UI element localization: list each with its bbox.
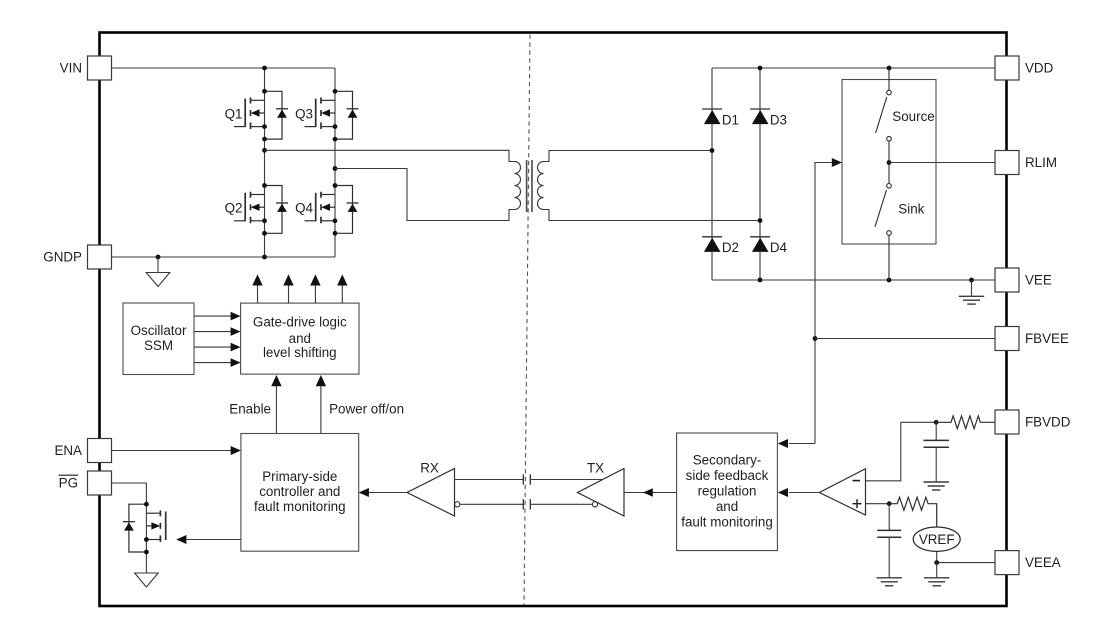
svg-text:D2: D2	[722, 240, 739, 255]
wire ENA to primary controller	[112, 450, 232, 452]
wire Power off/on (primary to gate-drive)	[320, 386, 322, 434]
node PG drain	[144, 502, 149, 507]
transistor Q2	[234, 186, 288, 234]
node D4 bottom on VEE rail	[758, 278, 763, 283]
node VEE ground tap	[969, 278, 974, 283]
gate drive output arrow 1	[257, 285, 259, 303]
svg-text:VREF: VREF	[919, 532, 955, 547]
wire oscillator output 4	[194, 362, 231, 364]
op-amp minus sign	[853, 480, 861, 482]
wire comm channel bottom (RX side)	[460, 503, 523, 505]
svg-text:fault monitoring: fault monitoring	[254, 499, 346, 514]
ground GNDP (open triangle)	[146, 257, 170, 287]
node FBVDD divider	[934, 420, 939, 425]
svg-text:VEE: VEE	[1025, 273, 1052, 288]
svg-text:SSM: SSM	[144, 338, 173, 353]
switch Sink	[887, 184, 892, 189]
transistor Q4	[305, 186, 359, 234]
svg-text:D1: D1	[722, 112, 739, 127]
node Q1 source	[262, 124, 267, 129]
wire control down to secondary block	[789, 443, 815, 445]
block Gate-drive logic and level shifting	[241, 303, 359, 374]
svg-text:Q2: Q2	[225, 201, 243, 216]
wire sink switch to VEE rail	[888, 235, 890, 280]
pin VIN	[88, 56, 112, 80]
buffer RX	[407, 469, 455, 517]
wire RLIM	[889, 162, 995, 164]
svg-text:VIN: VIN	[60, 61, 82, 76]
node Q3 body diode	[333, 137, 338, 142]
svg-text:Power off/on: Power off/on	[329, 401, 404, 416]
capacitor isolation top	[523, 474, 530, 484]
transformer T1 core	[527, 160, 532, 212]
bubble RX inverting input	[455, 502, 460, 507]
wire oscillator output 2	[194, 331, 231, 333]
ground C1	[924, 482, 949, 490]
svg-text:Oscillator: Oscillator	[131, 323, 187, 338]
wire comm channel top (RX side)	[455, 479, 524, 481]
ground at VEE rail	[959, 280, 984, 304]
node PG source	[144, 537, 149, 542]
wire primary bottom (node B to winding)	[335, 169, 515, 221]
gate drive output arrow 2	[288, 285, 290, 303]
svg-text:RX: RX	[420, 460, 439, 475]
node Q2 drain	[262, 183, 267, 188]
pin GNDP	[88, 245, 112, 269]
node switch bottom on VEE rail	[887, 278, 892, 283]
svg-text:Sink: Sink	[898, 201, 924, 216]
svg-text:D3: D3	[770, 112, 787, 127]
svg-text:TX: TX	[587, 460, 604, 475]
gate drive output arrow 3	[314, 285, 316, 303]
transistor Q3	[305, 91, 359, 139]
diode D3	[750, 109, 770, 124]
wire VDD rail	[712, 67, 995, 69]
wire Enable (primary to gate-drive)	[275, 386, 277, 434]
wire PG pin to pull-down transistor	[112, 483, 147, 504]
node SW2 primary bottom	[333, 166, 338, 171]
svg-text:Primary-side: Primary-side	[262, 469, 337, 484]
pin RLIM	[995, 151, 1019, 175]
svg-text:Gate-drive logic: Gate-drive logic	[253, 315, 347, 330]
svg-text:fault monitoring: fault monitoring	[681, 514, 773, 529]
wire primary top (node A to winding)	[265, 150, 515, 161]
buffer TX	[578, 469, 625, 517]
wire non-inverting input	[866, 503, 890, 505]
node Q4 body diode	[333, 231, 338, 236]
wire secondary bottom (winding to D3-D4 node)	[544, 210, 761, 221]
wire VREF to VEEA	[937, 551, 995, 562]
node RLIM junction	[887, 160, 892, 165]
wire PG transistor drain-gnd stem	[145, 504, 147, 573]
pin PG	[88, 471, 112, 495]
wire comm channel bottom (TX side)	[530, 503, 592, 505]
wire VEE rail	[712, 279, 995, 281]
wire oscillator output 1	[194, 315, 231, 317]
node Q3 drain	[333, 89, 338, 94]
node PG body diode	[144, 550, 149, 555]
voltage reference VREF	[913, 527, 960, 551]
node non-inverting input	[887, 501, 892, 506]
svg-text:ENA: ENA	[54, 443, 82, 458]
node Q4 source	[333, 218, 338, 223]
node FBVEE junction	[813, 336, 818, 341]
svg-text:VEEA: VEEA	[1025, 555, 1061, 570]
node Q1 drain	[262, 89, 267, 94]
svg-text:PG: PG	[59, 476, 78, 491]
node GNDP-left leg	[262, 255, 267, 260]
wire VREF ground stem	[936, 563, 938, 578]
wire TX input from secondary block	[624, 492, 677, 494]
svg-text:controller and: controller and	[259, 484, 340, 499]
resistor R1 (FBVDD)	[936, 416, 995, 429]
wire left bridge leg	[264, 68, 266, 257]
node Q4 drain	[333, 183, 338, 188]
bubble TX inverting output	[592, 502, 597, 507]
node SW1 primary top	[262, 148, 267, 153]
wire right bridge leg	[334, 68, 336, 257]
node GNDP ground tap	[156, 255, 161, 260]
wire secondary top (winding to D1-D2 node)	[544, 151, 713, 162]
pin FBVEE	[995, 327, 1019, 351]
wire inverting input from FBVDD divider	[866, 422, 937, 481]
svg-text:side feedback: side feedback	[686, 468, 769, 483]
capacitor C1 (FBVDD)	[924, 422, 949, 481]
resistor R2 (VREF)	[889, 497, 937, 527]
diode D2	[702, 237, 722, 252]
ground PG transistor (open triangle)	[135, 573, 159, 587]
wire op-amp output to secondary block	[789, 492, 819, 494]
wire comm channel top (TX side)	[530, 479, 603, 481]
node secondary bottom junction	[758, 218, 763, 223]
wire RX output to primary controller	[368, 492, 407, 494]
node D1 top on VDD rail	[758, 66, 763, 71]
node Q3 source	[333, 124, 338, 129]
pin VEE	[995, 268, 1019, 292]
wire oscillator output 3	[194, 346, 231, 348]
wire D3-D4 branch	[759, 68, 761, 280]
wire current-limit control into switch block	[815, 163, 832, 444]
current limit block (Source/Sink switches)	[842, 80, 936, 245]
svg-text:Q4: Q4	[295, 201, 313, 216]
op-amp plus sign	[853, 499, 862, 508]
node VEEA junction	[934, 560, 939, 565]
pin VEEA	[995, 551, 1019, 575]
svg-text:level shifting: level shifting	[263, 345, 337, 360]
pin ENA	[88, 439, 112, 463]
svg-text:GNDP: GNDP	[43, 250, 82, 265]
gate drive output arrow 4	[341, 285, 343, 303]
block Oscillator SSM	[123, 303, 194, 375]
IC outer boundary	[100, 33, 1007, 607]
transistor Q5 (PG open-drain, mirrored)	[123, 504, 166, 552]
pin VDD	[995, 56, 1019, 80]
op-amp U1 (error amplifier)	[819, 469, 865, 515]
wire switch mid node	[888, 141, 890, 184]
diode D4	[750, 237, 770, 252]
svg-text:Secondary-: Secondary-	[693, 452, 761, 467]
node VIN-left leg	[262, 66, 267, 71]
svg-text:VDD: VDD	[1025, 61, 1054, 76]
wire GNDP rail	[112, 256, 336, 258]
block Primary-side controller	[241, 434, 359, 552]
block Secondary-side feedback	[677, 433, 778, 551]
isolation barrier dashed line	[524, 35, 530, 605]
ground VREF	[924, 578, 949, 586]
wire VIN rail	[112, 67, 336, 69]
svg-text:and: and	[716, 499, 738, 514]
capacitor isolation bottom	[523, 499, 530, 509]
svg-text:Source: Source	[892, 109, 934, 124]
svg-text:D4: D4	[770, 240, 788, 255]
transformer T1 secondary winding	[538, 162, 544, 210]
wire FBVEE	[815, 338, 995, 340]
svg-text:regulation: regulation	[698, 483, 757, 498]
node Q2 body diode	[262, 231, 267, 236]
switch Source	[887, 90, 892, 95]
node Q2 source	[262, 218, 267, 223]
svg-text:Q1: Q1	[225, 107, 243, 122]
node secondary top junction	[710, 148, 715, 153]
diode D1	[702, 109, 722, 124]
node Q1 body diode	[262, 137, 267, 142]
pin FBVDD	[995, 410, 1019, 434]
svg-text:Enable: Enable	[229, 401, 271, 416]
svg-text:RLIM: RLIM	[1025, 155, 1057, 170]
ground C2	[877, 578, 902, 586]
svg-text:FBVDD: FBVDD	[1025, 415, 1071, 430]
svg-text:and: and	[289, 331, 311, 346]
svg-text:FBVEE: FBVEE	[1025, 331, 1069, 346]
capacitor C2 (non-inverting input)	[877, 504, 901, 578]
transformer T1 primary winding	[515, 162, 521, 210]
svg-text:Q3: Q3	[295, 107, 313, 122]
wire D1-D2 branch	[711, 68, 713, 280]
wire VDD to source switch	[888, 68, 890, 90]
node switch tap on VDD rail	[887, 66, 892, 71]
wire gate drive from primary controller	[186, 539, 241, 541]
transistor Q1	[234, 91, 288, 139]
